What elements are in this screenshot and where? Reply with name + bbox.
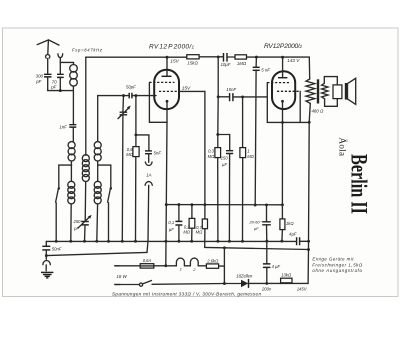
capacitor 50pF xyxy=(126,85,136,99)
wire trimmer to bus xyxy=(121,115,124,243)
svg-text:pF: pF xyxy=(73,226,79,231)
capacitor 4uF (bus) xyxy=(289,231,299,245)
wire between coil C1 and C2 xyxy=(97,161,99,181)
wire rail node to 1M vertical xyxy=(242,97,244,148)
U1 grid1 dashed xyxy=(149,81,174,83)
svg-text:145V: 145V xyxy=(297,286,308,291)
svg-text:2,6kΩ: 2,6kΩ xyxy=(206,258,219,263)
resistor 13kOhm xyxy=(281,273,292,283)
resistor 15kOhm xyxy=(187,55,199,66)
wire 250pF to bus xyxy=(83,226,86,242)
wire 1nF to coil A1 xyxy=(72,127,74,141)
svg-text:18 W: 18 W xyxy=(116,274,127,279)
U1 grid2 dashed xyxy=(159,90,179,92)
speaker cone xyxy=(345,78,356,104)
wire antenna to C300 xyxy=(47,59,49,75)
wire 5nF down to grid bus xyxy=(254,71,257,207)
svg-text:RV 12 P 2000/2: RV 12 P 2000/2 xyxy=(264,43,302,50)
fuse 0.6A xyxy=(140,258,154,268)
wire B-left chassis return xyxy=(45,252,147,257)
wire coil A2 to bus xyxy=(69,204,72,243)
wire diode to 13k xyxy=(249,282,309,285)
wire U2 cathode down to bias network xyxy=(281,122,284,206)
svg-text:50pF: 50pF xyxy=(126,85,136,90)
svg-text:MΩ: MΩ xyxy=(247,154,254,159)
wire 0.3M to bus xyxy=(216,158,219,243)
svg-text:10µF: 10µF xyxy=(220,62,230,67)
wire screen line down xyxy=(203,91,206,206)
wire 150uF to bus xyxy=(228,154,231,243)
coil A2 xyxy=(68,181,75,204)
coil B xyxy=(82,155,89,182)
svg-text:Berlin II: Berlin II xyxy=(347,154,372,214)
capacitor 150uF xyxy=(221,151,233,167)
wire plug2 down xyxy=(59,58,61,75)
variable capacitor 250pF xyxy=(73,215,92,231)
coil C1 xyxy=(94,142,101,161)
capacitor 5nF (cathode) xyxy=(145,150,161,155)
wire coil L1 down to 1nF xyxy=(72,86,74,124)
wire B-right return xyxy=(205,246,310,251)
wire 20-60uF to bus xyxy=(265,225,268,243)
wire cap bottoms bus xyxy=(48,89,74,92)
wire 50pF node down to R 0.6M node xyxy=(134,96,137,137)
wire node to 150uF xyxy=(218,135,230,151)
capacitor 0.1uF xyxy=(168,205,182,232)
svg-text:0,3: 0,3 xyxy=(208,149,214,154)
wire grid 50pF line xyxy=(98,94,129,97)
wire plug2 to antenna coil xyxy=(60,62,73,64)
capacitor 50nF (ground) xyxy=(42,241,61,251)
svg-text:RV 12 P 2000/1: RV 12 P 2000/1 xyxy=(149,44,194,51)
wire coil B to variable cap xyxy=(84,182,87,222)
svg-text:250: 250 xyxy=(73,219,82,224)
svg-text:pF: pF xyxy=(50,84,56,89)
tube U2 RV12P2000/2 envelope xyxy=(272,71,295,109)
resistor 0.2MOhm xyxy=(183,205,194,235)
transformer core xyxy=(317,79,319,103)
wire switch to junction xyxy=(152,283,224,286)
antenna xyxy=(37,40,59,54)
svg-text:Fsp=847kHz: Fsp=847kHz xyxy=(72,47,103,52)
svg-text:1nF: 1nF xyxy=(59,125,67,130)
svg-text:Spannungen mit Instrument 333Ω: Spannungen mit Instrument 333Ω / V, 300V… xyxy=(112,291,261,296)
wire 1k to bus xyxy=(280,230,283,243)
screen dropper line from rail xyxy=(217,57,220,98)
coil A1 xyxy=(68,142,75,161)
svg-text:1: 1 xyxy=(247,149,249,154)
svg-text:MΩ: MΩ xyxy=(196,230,203,235)
svg-text:50nF: 50nF xyxy=(52,246,62,251)
resistor 0.3MOhm xyxy=(208,135,221,159)
capacitor 300pF xyxy=(35,74,51,85)
rail wire to 10uF xyxy=(199,55,223,58)
bus A main return xyxy=(46,240,296,242)
heater connector upper arc xyxy=(145,154,152,166)
wire 50pF to tube grid xyxy=(133,94,156,97)
svg-text:13kΩ: 13kΩ xyxy=(281,273,292,278)
svg-text:480 Ω: 480 Ω xyxy=(311,108,324,113)
anode supply rail xyxy=(86,56,187,59)
svg-text:Einige Geräte mit: Einige Geräte mit xyxy=(312,257,354,262)
wire terminal 2 to switch xyxy=(120,284,139,286)
wire coil C2 to bus xyxy=(95,204,98,243)
capacitor 70pF xyxy=(50,74,63,89)
switch S1 xyxy=(56,187,60,202)
svg-text:1kΩ: 1kΩ xyxy=(286,221,294,226)
svg-text:1A: 1A xyxy=(146,173,151,178)
U2 cathode xyxy=(281,100,284,123)
wire C300 bottom xyxy=(47,77,49,91)
svg-text:µF: µF xyxy=(169,227,174,232)
U2 grid return box xyxy=(267,83,310,124)
wire terminal to fuse xyxy=(120,265,141,267)
wire barretter to 2.6k xyxy=(198,265,206,267)
wire S2 to bus xyxy=(107,203,110,243)
svg-text:15V: 15V xyxy=(170,59,179,65)
antenna plug connector 1 xyxy=(46,55,50,59)
resistor 2.6kOhm xyxy=(206,258,219,268)
page frame xyxy=(3,28,399,297)
svg-text:4 µF: 4 µF xyxy=(272,264,281,269)
svg-text:MΩ: MΩ xyxy=(126,152,133,157)
svg-text:15nF: 15nF xyxy=(226,87,236,92)
svg-text:µF: µF xyxy=(254,226,259,231)
wire tap C to switch S2 xyxy=(98,165,111,187)
wire 1M to bus xyxy=(241,158,244,243)
wire U1 screen to dropper xyxy=(179,90,205,92)
svg-text:4µF: 4µF xyxy=(289,231,297,236)
wire 50pF-line corner down to coil C1 xyxy=(97,96,99,142)
U2 anode xyxy=(278,57,287,77)
antenna plug connector 2 xyxy=(58,54,63,58)
resistor 1MOhm (rail) xyxy=(227,55,247,66)
cathode heater line U1 down xyxy=(164,122,167,267)
U1 cathode xyxy=(166,100,169,122)
svg-text:300: 300 xyxy=(36,74,44,79)
wire 70pF bottom xyxy=(59,78,61,91)
svg-text:18Zellen: 18Zellen xyxy=(236,274,253,279)
wire tap A to switch S1 xyxy=(59,165,72,187)
svg-text:150: 150 xyxy=(221,155,229,160)
note text xyxy=(312,257,363,273)
right riser line xyxy=(308,122,309,283)
wire 0.2M to bus xyxy=(190,228,193,242)
wire 2.6k corner down xyxy=(219,248,226,285)
wire S1 to bus xyxy=(55,203,58,243)
svg-text:ohne Ausgangstrafo: ohne Ausgangstrafo xyxy=(312,268,362,273)
svg-text:pF: pF xyxy=(35,79,41,84)
rail to tube U2 xyxy=(247,56,310,59)
svg-text:5 nF: 5 nF xyxy=(261,67,270,72)
trimmer capacitor xyxy=(118,106,131,119)
wire junction to diode xyxy=(224,283,241,285)
heater connector lower arc xyxy=(145,182,152,253)
U2 grid1 dashed xyxy=(267,82,289,84)
output transformer primary xyxy=(306,57,324,122)
wire 200V node cap 4uF xyxy=(263,241,281,283)
barretter bumps 1 2 xyxy=(176,258,198,272)
svg-text:20‐60⁻: 20‐60⁻ xyxy=(248,219,262,224)
coil C2 xyxy=(94,181,101,204)
switch S2 xyxy=(108,187,112,202)
tube U1 RV12P2000/1 envelope xyxy=(154,70,179,109)
wire to 0.3M node xyxy=(216,97,219,136)
resistor 0.6MOhm xyxy=(126,135,139,157)
wire 0.7M down to wire B-right xyxy=(204,229,206,248)
mains terminal 1 xyxy=(114,265,119,267)
secondary loop to speaker coil xyxy=(324,77,337,107)
wire G cathode-grid network bus xyxy=(166,203,283,206)
U2 grid2 dashed xyxy=(277,90,300,92)
svg-text:200v: 200v xyxy=(261,287,272,292)
capacitor 1nF xyxy=(59,125,76,130)
speaker driver xyxy=(333,85,342,99)
svg-text:µF: µF xyxy=(222,162,227,167)
svg-text:MΩ: MΩ xyxy=(183,229,190,234)
capacitor 5nF (rail) xyxy=(253,57,271,72)
U1 grid return box wire xyxy=(149,82,167,122)
antenna coil L1 xyxy=(70,65,78,87)
svg-text:1MΩ: 1MΩ xyxy=(237,61,247,66)
svg-text:5nF: 5nF xyxy=(154,150,162,155)
svg-text:Freischwinger 1,5kΩ: Freischwinger 1,5kΩ xyxy=(312,262,363,267)
capacitor 20-60uF electrolytic xyxy=(248,205,270,231)
svg-text:0,6A: 0,6A xyxy=(143,258,152,263)
trimmer column wire xyxy=(122,96,125,112)
resistor 0.7MOhm xyxy=(196,205,208,235)
resistor 1MOhm (grid leak U2) xyxy=(240,148,255,159)
mains terminal 2 xyxy=(114,284,120,286)
capacitor 15nF xyxy=(226,87,236,101)
chassis plug connector xyxy=(43,251,50,271)
svg-text:15kΩ: 15kΩ xyxy=(187,61,198,66)
resistor 1kOhm xyxy=(280,205,294,230)
wire 15nF left xyxy=(218,96,229,98)
wire fuse to barretter xyxy=(154,265,177,267)
ground xyxy=(41,272,53,278)
wire R0.6M to bus xyxy=(134,157,137,243)
wire node to 5nF branch xyxy=(136,135,149,151)
wire between coil A1 and A2 xyxy=(70,161,72,181)
svg-text:0,1: 0,1 xyxy=(168,220,174,225)
svg-text:1: 1 xyxy=(180,266,182,271)
transformer secondary xyxy=(322,83,328,99)
wire anode rail corner down to coil B xyxy=(85,57,87,155)
wire 0.1uF to bus xyxy=(177,225,180,242)
svg-text:143 V: 143 V xyxy=(287,58,300,63)
svg-text:Äola: Äola xyxy=(338,138,348,157)
rectifier diode 18 Zellen xyxy=(236,274,253,288)
svg-text:MΩ: MΩ xyxy=(208,154,215,159)
wire 15nF right to U2 grid xyxy=(234,95,267,98)
U1 anode xyxy=(162,57,172,76)
bus A right end xyxy=(300,240,310,243)
capacitor 10uF coupling xyxy=(220,53,230,67)
mains switch xyxy=(139,281,151,287)
